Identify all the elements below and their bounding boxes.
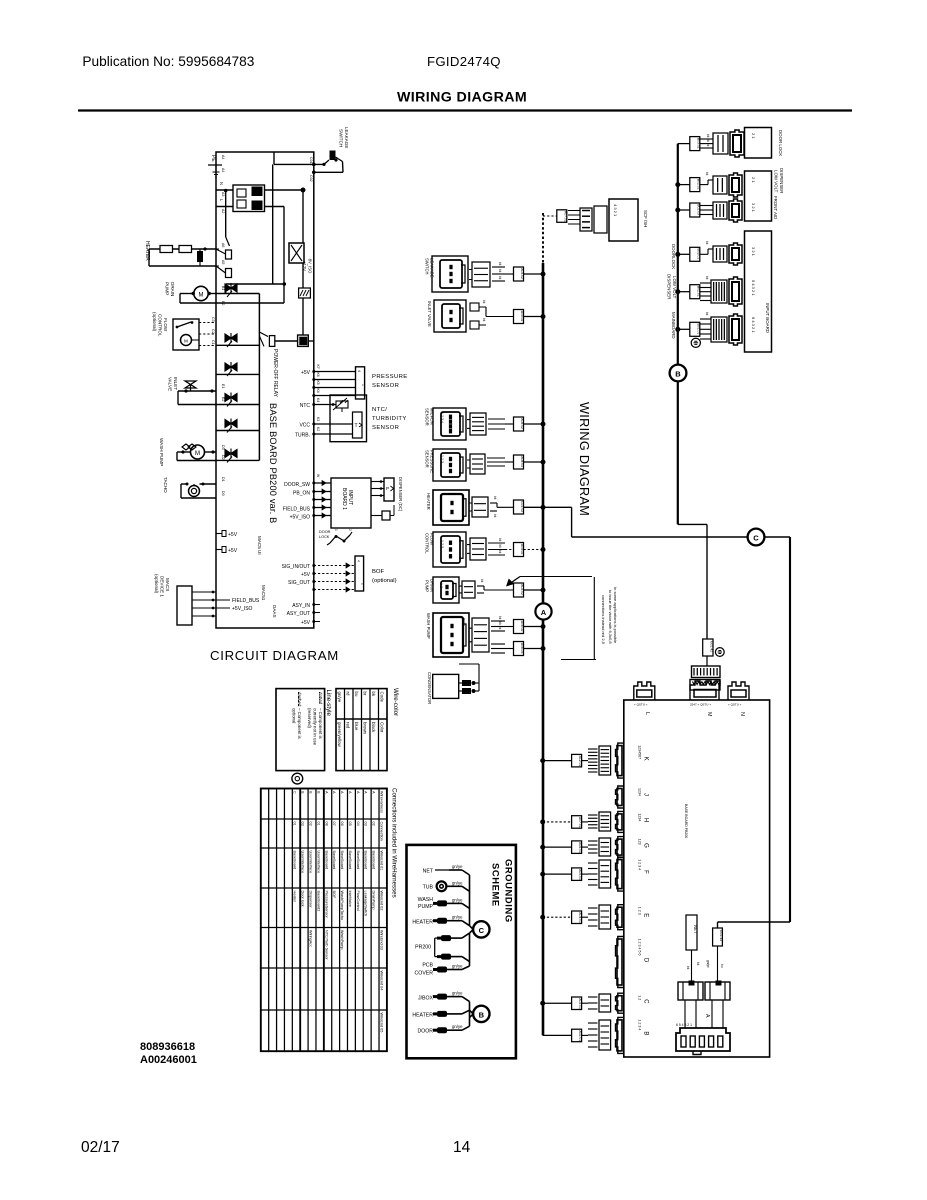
mainboard row wire xyxy=(678,328,690,330)
condensator xyxy=(433,674,459,698)
svg-text:PE: PE xyxy=(210,155,216,162)
wire heater to bus and beyond xyxy=(524,506,572,508)
svg-text:D: D xyxy=(643,958,649,963)
svg-text:+ QSTU +: + QSTU + xyxy=(634,703,648,707)
connector B mating plug xyxy=(599,1020,611,1050)
base board connector G xyxy=(616,837,624,858)
svg-text:– Component is: – Component is xyxy=(297,708,302,740)
svg-text:K4: K4 xyxy=(316,389,320,393)
svg-text:WashPumpTacho: WashPumpTacho xyxy=(340,891,344,921)
wire inlet valve to bus xyxy=(524,316,544,318)
base board connector J xyxy=(616,786,624,808)
svg-text:FLOW: FLOW xyxy=(163,318,168,332)
svg-text:A05.01: A05.01 xyxy=(578,869,582,880)
svg-text:DISPENSER: DISPENSER xyxy=(666,274,671,299)
svg-text:bk: bk xyxy=(498,276,502,280)
G01.43 code box xyxy=(713,928,723,946)
SCF/SH box xyxy=(609,199,638,241)
connector G code xyxy=(572,841,582,854)
svg-text:bk: bk xyxy=(706,139,710,143)
wire bus to B xyxy=(543,1034,572,1036)
drain pump note arrow xyxy=(520,576,592,578)
svg-text:W: W xyxy=(316,474,320,478)
svg-text:NET: NET xyxy=(423,869,434,875)
svg-text:6 5 4 3 2 1: 6 5 4 3 2 1 xyxy=(676,1023,692,1027)
svg-text:1234567: 1234567 xyxy=(638,745,642,759)
svg-text:connections instead red 2,5: connections instead red 2,5 xyxy=(601,595,606,645)
svg-text:INLET: INLET xyxy=(173,377,178,390)
svg-text:BaseBoard: BaseBoard xyxy=(293,851,297,870)
svg-text:BaseBoard: BaseBoard xyxy=(364,851,368,870)
svg-text:03: 03 xyxy=(301,822,305,826)
svg-text:bk: bk xyxy=(706,134,710,138)
svg-text:A02.01: A02.01 xyxy=(578,1030,582,1041)
svg-text:DISPENSER: DISPENSER xyxy=(779,168,784,193)
svg-text:P: P xyxy=(386,486,389,491)
thermistor symbol xyxy=(336,401,348,408)
svg-text:BaseBoard: BaseBoard xyxy=(332,851,336,870)
earth mark top right xyxy=(691,338,700,347)
svg-text:1234: 1234 xyxy=(638,813,642,821)
svg-text:K: K xyxy=(643,757,649,761)
svg-text:MAC5 UI: MAC5 UI xyxy=(257,536,262,555)
svg-text:2 1: 2 1 xyxy=(751,177,756,183)
doorlock low connector xyxy=(713,246,727,262)
svg-text:C: C xyxy=(293,791,297,794)
door lock box xyxy=(745,128,772,159)
svg-text:M: M xyxy=(199,293,204,299)
svg-text:A: A xyxy=(340,791,344,794)
svg-text:DISPENSER (DC): DISPENSER (DC) xyxy=(398,477,403,512)
svg-text:DEVICE 1: DEVICE 1 xyxy=(160,576,165,597)
svg-text:Line-style: Line-style xyxy=(325,690,332,717)
svg-text:Publication No: 5995684783: Publication No: 5995684783 xyxy=(82,54,254,69)
svg-text:FlowControl: FlowControl xyxy=(356,891,360,911)
svg-text:2547 + QSTU +: 2547 + QSTU + xyxy=(690,703,711,707)
svg-text:A: A xyxy=(332,791,336,794)
svg-text:C: C xyxy=(479,926,485,935)
svg-text:BaseBoard: BaseBoard xyxy=(356,851,360,870)
supply resistor xyxy=(299,288,311,298)
svg-text:PUMP: PUMP xyxy=(425,580,430,592)
svg-text:BaseBoard: BaseBoard xyxy=(340,851,344,870)
NET box xyxy=(686,915,697,950)
microfilter sensor connector xyxy=(433,408,466,440)
wires to relays xyxy=(691,950,693,982)
svg-text:BaseBoard: BaseBoard xyxy=(372,851,376,870)
wire wash pump to bus xyxy=(524,626,544,628)
triac row 1 wire xyxy=(216,293,259,295)
svg-text:8V_ISO: 8V_ISO xyxy=(308,259,313,274)
svg-text:02: 02 xyxy=(372,822,376,826)
svg-text:WireHarness: WireHarness xyxy=(379,791,383,813)
svg-text:A05.02: A05.02 xyxy=(520,311,524,322)
svg-text:bk: bk xyxy=(498,269,502,273)
svg-text:optional: optional xyxy=(292,708,297,723)
SCF/SH connector xyxy=(580,208,592,231)
wire wash pump tacho to bus xyxy=(524,648,544,650)
svg-text:A06.03: A06.03 xyxy=(520,643,524,654)
triac row 5 wire xyxy=(216,430,259,432)
svg-text:C2: C2 xyxy=(211,329,215,334)
svg-text:Dispenser: Dispenser xyxy=(309,891,313,909)
svg-text:M: M xyxy=(195,451,200,457)
svg-text:1: 1 xyxy=(361,583,365,585)
main bus wire (dashed top) xyxy=(542,213,544,263)
svg-text:C: C xyxy=(643,999,649,1004)
N connector xyxy=(728,682,749,700)
svg-text:UserInterface: UserInterface xyxy=(309,851,313,874)
connector C code xyxy=(572,997,582,1010)
svg-text:LOCK: LOCK xyxy=(319,535,330,539)
base board connector F xyxy=(616,857,624,891)
drain pump connector xyxy=(433,577,459,603)
heater loop wires xyxy=(149,248,216,250)
svg-text:1: 1 xyxy=(334,529,338,531)
svg-text:B02.01: B02.01 xyxy=(696,286,700,297)
low volt dispenser row wire xyxy=(678,291,690,293)
svg-text:A07.01: A07.01 xyxy=(578,817,582,828)
svg-text:FIELD_BUS: FIELD_BUS xyxy=(283,507,311,513)
svg-text:CONDENSATOR: CONDENSATOR xyxy=(427,672,432,704)
svg-text:A03.02: A03.02 xyxy=(520,268,524,279)
svg-text:bk: bk xyxy=(480,579,484,583)
svg-text:LOW VOLT: LOW VOLT xyxy=(774,170,779,193)
base board PB200 outline xyxy=(216,152,314,628)
relay left xyxy=(678,982,703,1000)
svg-text:B1: B1 xyxy=(221,286,225,290)
svg-text:WireEnd 05: WireEnd 05 xyxy=(379,1013,383,1033)
svg-text:01: 01 xyxy=(293,822,297,826)
svg-text:bk: bk xyxy=(686,966,690,970)
svg-text:bk: bk xyxy=(498,616,502,620)
svg-text:BOF: BOF xyxy=(372,569,385,575)
svg-text:C02: C02 xyxy=(309,175,313,182)
svg-text:POWER-OFF RELAY: POWER-OFF RELAY xyxy=(272,349,278,398)
svg-text:Code: Code xyxy=(379,692,384,703)
svg-text:SENSOR: SENSOR xyxy=(372,425,399,431)
wire leakage to bus xyxy=(524,273,544,275)
wash pump motor M xyxy=(191,445,205,459)
svg-text:A3: A3 xyxy=(221,192,225,196)
svg-text:T: T xyxy=(355,423,358,429)
svg-text:WIRING DIAGRAM: WIRING DIAGRAM xyxy=(397,90,527,106)
svg-text:TUB: TUB xyxy=(423,885,434,891)
svg-text:bk: bk xyxy=(705,312,709,316)
triac T2 xyxy=(225,334,237,342)
door lock connector xyxy=(713,133,728,154)
front aid connector xyxy=(713,202,727,219)
node B xyxy=(670,365,687,382)
svg-text:A06.02: A06.02 xyxy=(520,621,524,632)
svg-text:05: 05 xyxy=(348,822,352,826)
svg-text:to issue the victor with 6,3x0: to issue the victor with 6,3x0,8 xyxy=(608,590,613,644)
L connector xyxy=(634,682,655,700)
earth mark near G01.42 xyxy=(715,648,724,657)
svg-text:L: L xyxy=(644,712,650,715)
M connector xyxy=(690,681,720,700)
svg-text:bu: bu xyxy=(354,692,359,697)
svg-text:NTC/: NTC/ xyxy=(372,407,387,413)
svg-text:MACS: MACS xyxy=(165,578,170,591)
triac T3 xyxy=(225,363,237,371)
svg-text:B02.02: B02.02 xyxy=(696,179,700,190)
svg-text:LEAKAGE: LEAKAGE xyxy=(344,127,349,148)
svg-text:A04.01: A04.01 xyxy=(578,912,582,923)
leakage feed vertical xyxy=(272,164,274,283)
svg-text:WASH PUMP: WASH PUMP xyxy=(159,438,164,466)
svg-text:WireEnd 03: WireEnd 03 xyxy=(379,930,383,950)
svg-text:– Component is: – Component is xyxy=(318,708,323,740)
MACS device wires xyxy=(192,591,216,593)
svg-text:01: 01 xyxy=(316,822,320,826)
wire bus to C xyxy=(543,1002,572,1004)
leakage switch wires xyxy=(273,152,275,164)
pin strip upper xyxy=(706,656,708,666)
svg-text:D0: D0 xyxy=(221,491,225,496)
svg-text:SWITCH: SWITCH xyxy=(425,258,430,275)
svg-text:+5V: +5V xyxy=(301,370,311,376)
svg-text:BOARD 1: BOARD 1 xyxy=(341,488,347,510)
wire bus to H xyxy=(543,821,572,823)
svg-text:PUMP: PUMP xyxy=(418,904,434,910)
svg-text:MAINBOARD: MAINBOARD xyxy=(671,312,676,339)
svg-text:bk: bk xyxy=(706,143,710,147)
svg-text:L: L xyxy=(219,199,224,202)
svg-text:C1: C1 xyxy=(211,340,215,345)
base board connector K xyxy=(616,743,624,778)
relay right xyxy=(705,982,730,1000)
svg-text:K6: K6 xyxy=(316,373,320,377)
svg-text:A08.03: A08.03 xyxy=(520,456,524,467)
svg-text:FGID2474Q: FGID2474Q xyxy=(427,54,501,69)
header rule xyxy=(78,109,852,111)
heater relay staircase xyxy=(225,191,227,238)
svg-text:bk: bk xyxy=(705,276,709,280)
power-off relay coil xyxy=(298,335,309,346)
svg-text:bk: bk xyxy=(482,300,486,304)
svg-text:BASE BOARD PB200: BASE BOARD PB200 xyxy=(684,804,688,838)
svg-text:bk: bk xyxy=(482,318,486,322)
bottom edge tick xyxy=(313,627,315,629)
dispenser DC box xyxy=(384,478,394,501)
wash pump winding xyxy=(182,444,196,450)
triac row 4 wire xyxy=(216,404,259,406)
svg-text:DOOR: DOOR xyxy=(319,530,331,534)
+12V supply line xyxy=(302,190,304,243)
svg-text:D1: D1 xyxy=(221,477,225,482)
svg-text:currently not in use: currently not in use xyxy=(313,708,318,746)
ground bus B xyxy=(469,1002,471,1027)
svg-text:DAAS: DAAS xyxy=(272,605,277,618)
svg-text:K7: K7 xyxy=(316,365,320,369)
wires relays to A connector xyxy=(684,1000,686,1028)
svg-text:N: N xyxy=(739,712,745,716)
svg-text:E: E xyxy=(643,913,649,917)
base board connector D xyxy=(616,937,624,988)
svg-text:PRESSURE: PRESSURE xyxy=(372,374,408,380)
input board wires xyxy=(314,482,331,484)
svg-text:1 2 3: 1 2 3 xyxy=(440,540,444,548)
svg-text:TACHO: TACHO xyxy=(163,477,168,493)
doorlock low row wire xyxy=(678,253,690,255)
svg-text:Wire-color: Wire-color xyxy=(392,688,399,716)
base board connector B xyxy=(616,1017,624,1053)
triac T5 xyxy=(225,420,237,428)
svg-text:A2: A2 xyxy=(221,209,225,213)
grounding scheme box xyxy=(407,845,516,1058)
svg-text:PB_ON: PB_ON xyxy=(293,491,310,497)
svg-text:K2: K2 xyxy=(316,427,320,431)
dispenser connector xyxy=(713,176,727,194)
supply wires xyxy=(302,263,304,288)
connector C mating plug xyxy=(599,994,611,1012)
svg-text:A03.01: A03.01 xyxy=(578,998,582,1009)
svg-text:+5V: +5V xyxy=(301,620,311,626)
T> box xyxy=(353,412,363,438)
svg-text:WireEnd 01: WireEnd 01 xyxy=(379,851,383,871)
svg-text:1 2 3 4 5 6: 1 2 3 4 5 6 xyxy=(638,939,642,956)
dispenser DC wires xyxy=(371,481,384,483)
svg-text:WireEnd 02: WireEnd 02 xyxy=(379,891,383,911)
svg-text:3 2 1: 3 2 1 xyxy=(751,247,756,257)
svg-text:WASH PUMP: WASH PUMP xyxy=(426,613,431,639)
svg-text:Heater: Heater xyxy=(293,891,297,903)
inlet valve symbol xyxy=(185,381,196,388)
svg-text:3 2 1: 3 2 1 xyxy=(751,203,756,213)
svg-text:HEATER: HEATER xyxy=(412,920,433,926)
svg-text:TURB.: TURB. xyxy=(295,433,310,439)
mainboard connector xyxy=(711,317,727,342)
svg-text:COVER: COVER xyxy=(415,971,434,977)
main bus wire upper xyxy=(542,263,545,603)
svg-text:A: A xyxy=(364,791,368,794)
svg-text:5 4 3 2 1: 5 4 3 2 1 xyxy=(751,280,756,296)
pin strip lower xyxy=(690,680,720,691)
svg-text:1 2 3: 1 2 3 xyxy=(440,455,444,463)
svg-text:BASE BOARD PB200 var. B: BASE BOARD PB200 var. B xyxy=(268,403,278,524)
node A xyxy=(535,603,551,619)
svg-text:ASY_IN: ASY_IN xyxy=(292,603,310,609)
svg-text:gn/ye: gn/ye xyxy=(452,991,463,996)
legend mark xyxy=(292,773,303,784)
wire filter L out xyxy=(265,206,285,208)
leakage switch connector xyxy=(432,256,468,292)
svg-text:bk: bk xyxy=(498,626,502,630)
wire microfilter to bus xyxy=(524,423,544,425)
svg-text:+5V: +5V xyxy=(301,572,311,578)
base board connector E xyxy=(616,905,624,930)
svg-text:K4: K4 xyxy=(316,398,320,402)
connector H mating plug xyxy=(599,812,611,831)
svg-text:SENSOR: SENSOR xyxy=(372,383,399,389)
connector A xyxy=(676,1028,730,1051)
svg-text:SIG_OUT: SIG_OUT xyxy=(288,580,310,586)
svg-text:808936618: 808936618 xyxy=(140,1041,195,1053)
svg-text:PUMP: PUMP xyxy=(165,282,170,295)
svg-text:B: B xyxy=(675,370,681,379)
wire filter to +12V supply xyxy=(265,189,304,191)
wash pump wires xyxy=(205,451,217,453)
svg-text:black: black xyxy=(371,722,376,733)
front aid row wire xyxy=(678,209,690,211)
svg-text:SENSOR: SENSOR xyxy=(425,450,430,468)
svg-text:+ QSTU +: + QSTU + xyxy=(728,703,742,707)
heater relay contact 1 xyxy=(226,250,232,259)
svg-text:INPUT BOARD: INPUT BOARD xyxy=(765,303,770,333)
relay wires xyxy=(275,340,298,342)
pin +5V b xyxy=(216,549,222,551)
svg-text:A4: A4 xyxy=(221,155,225,159)
leakage switch xyxy=(330,151,336,161)
svg-text:PCB: PCB xyxy=(422,963,433,969)
svg-text:UserInterface: UserInterface xyxy=(301,851,305,874)
interior crossover wire xyxy=(226,283,285,285)
svg-text:M: M xyxy=(184,339,188,344)
pressure sensor wires xyxy=(314,371,356,373)
flow control box xyxy=(173,319,199,350)
svg-text:(optional): (optional) xyxy=(154,574,159,594)
svg-text:D2: D2 xyxy=(221,455,225,460)
svg-text:TURBIDITY: TURBIDITY xyxy=(372,416,407,422)
wire N from board edge to filter xyxy=(216,189,233,191)
svg-text:1 2: 1 2 xyxy=(638,995,642,1000)
svg-text:A6: A6 xyxy=(221,243,225,247)
svg-text:A02.02: A02.02 xyxy=(520,584,524,595)
svg-text:VCC: VCC xyxy=(299,423,310,429)
svg-text:bk: bk xyxy=(371,692,376,697)
svg-text:gn/ye: gn/ye xyxy=(452,897,463,902)
svg-text:(optional): (optional) xyxy=(372,578,397,584)
svg-text:E1: E1 xyxy=(221,384,225,388)
svg-text:A00246001: A00246001 xyxy=(140,1054,197,1066)
pressure sensor connector xyxy=(433,449,466,481)
wire bus to F xyxy=(543,873,572,875)
svg-text:DOORLOCK: DOORLOCK xyxy=(671,244,676,269)
svg-text:NTC: NTC xyxy=(300,403,311,409)
svg-text:brown: brown xyxy=(362,722,367,735)
svg-text:J/BOX: J/BOX xyxy=(418,996,434,1002)
svg-text:1 2 3 4: 1 2 3 4 xyxy=(638,1019,642,1030)
connector F code xyxy=(572,868,582,881)
svg-text:C01: C01 xyxy=(309,157,313,164)
pin +5V a xyxy=(216,533,222,535)
base board pb200 box xyxy=(624,700,770,1057)
svg-text:rd: rd xyxy=(345,692,350,696)
svg-text:WireEnd 04: WireEnd 04 xyxy=(379,971,383,991)
connections table xyxy=(261,789,387,1052)
tacho wires xyxy=(200,483,217,485)
inlet valve wires xyxy=(178,390,216,392)
dispenser row wire xyxy=(678,184,690,186)
triac T0 drain xyxy=(259,332,268,337)
svg-text:A07.02: A07.02 xyxy=(563,211,567,222)
svg-text:K3: K3 xyxy=(316,417,320,421)
interference filter xyxy=(233,185,265,212)
svg-text:A: A xyxy=(541,608,547,617)
svg-text:HEATER: HEATER xyxy=(426,493,431,510)
svg-text:4 3 2 1: 4 3 2 1 xyxy=(613,204,618,217)
svg-text:gn/ye: gn/ye xyxy=(452,915,463,920)
connector G mating plug xyxy=(599,838,611,856)
svg-text:PR200: PR200 xyxy=(415,945,431,951)
svg-text:2 1: 2 1 xyxy=(751,133,756,139)
svg-text:br: br xyxy=(362,692,367,696)
svg-text:bk: bk xyxy=(705,241,709,245)
svg-text:1 2: 1 2 xyxy=(439,583,443,588)
svg-text:1 2 3: 1 2 3 xyxy=(638,907,642,915)
svg-text:B01.01: B01.01 xyxy=(696,324,700,335)
